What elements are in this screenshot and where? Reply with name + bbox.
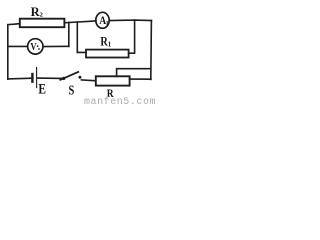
switch S right contact dot: [78, 76, 81, 79]
bottom wire from left rail to battery: [8, 77, 32, 80]
ammeter A circle: [96, 12, 109, 28]
resistor R2 body: [20, 19, 65, 28]
voltmeter V circle: [28, 39, 43, 54]
switch S left pivot dot: [62, 77, 65, 80]
node drop to voltmeter loop: [68, 23, 70, 47]
wire battery to switch: [37, 77, 62, 79]
svg-text:V: V: [30, 41, 36, 53]
wire switch to rheostat: [81, 79, 95, 82]
rheostat slider arm: [117, 69, 151, 77]
battery E positive plate: [36, 68, 38, 88]
right rail down to rheostat slider: [150, 21, 153, 80]
wire R1 branch right vertical: [129, 20, 135, 53]
svg-text:manfen5.com: manfen5.com: [84, 96, 156, 104]
svg-text:S: S: [69, 83, 75, 98]
svg-text:1: 1: [106, 21, 109, 27]
resistor R1 body: [86, 50, 129, 58]
wire top-left from left rail to resistor R2: [8, 24, 20, 80]
wire R1 branch left vertical: [77, 22, 86, 52]
svg-text:1: 1: [108, 41, 112, 49]
wire from R2 to ammeter branch: [64, 21, 96, 23]
switch S lever: [60, 72, 78, 80]
wire rheostat right end to right rail: [130, 78, 151, 80]
wire ammeter to top-right corner: [109, 19, 151, 22]
wire left rail to voltmeter: [8, 45, 28, 47]
rheostat R body: [96, 76, 130, 85]
battery E negative plate: [31, 74, 33, 82]
svg-text:E: E: [38, 82, 46, 98]
wire voltmeter to node: [43, 45, 69, 47]
svg-text:2: 2: [40, 12, 43, 19]
